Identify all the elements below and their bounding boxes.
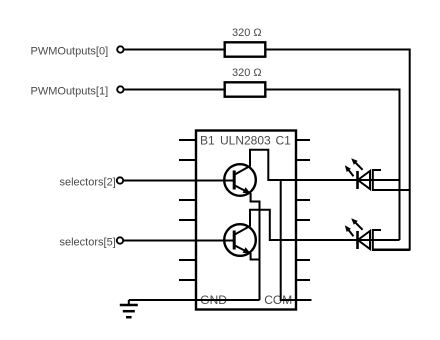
svg-text:320 Ω: 320 Ω xyxy=(232,67,262,79)
terminal selectors[5] xyxy=(117,237,123,243)
pin COM stub xyxy=(296,299,312,301)
wire Q2 emitter to GND rail xyxy=(251,253,260,260)
wire Q1 emitter to GND rail xyxy=(251,193,260,300)
LED D2 light arrow 1 xyxy=(347,228,353,236)
wire R2 right, down to LED2 anode wire xyxy=(265,90,399,241)
svg-text:selectors[5]: selectors[5] xyxy=(60,237,116,249)
LED D1 triangle xyxy=(358,171,370,189)
IC U1 ULN2803 body xyxy=(196,131,296,310)
left pin stubs xyxy=(179,140,196,280)
wire Q2 collector to output pin xyxy=(250,210,296,240)
LED D2 light arrow 2 xyxy=(354,221,363,230)
transistor Q2 emitter diagonal xyxy=(235,246,251,254)
svg-text:320 Ω: 320 Ω xyxy=(232,27,262,39)
transistor Q2 collector diagonal xyxy=(235,226,250,235)
terminal selectors[2] xyxy=(117,177,123,183)
transistor Q2 base bar xyxy=(233,231,236,250)
transistor Q1 circle xyxy=(224,164,256,196)
LED D2 bracket xyxy=(373,230,410,250)
wire selectors[5] to Q2 base xyxy=(124,240,235,242)
LED D1 light arrow 1 xyxy=(347,168,353,176)
transistor Q1 base bar xyxy=(233,171,236,190)
ground xyxy=(128,300,130,306)
LED D1 cathode bar xyxy=(356,171,359,189)
svg-text:B1: B1 xyxy=(200,134,215,148)
wire selectors[2] to Q1 base xyxy=(124,180,235,182)
LED D1 light arrow 2 xyxy=(354,161,363,170)
transistor Q1 emitter diagonal xyxy=(235,186,251,194)
wire R1 right, down to LED2 bracket xyxy=(265,50,409,250)
LED D2 triangle xyxy=(358,231,370,249)
wire PWMOutputs[0] to R1 xyxy=(124,49,225,51)
svg-text:PWMOutputs[0]: PWMOutputs[0] xyxy=(31,46,109,58)
svg-text:ULN2803: ULN2803 xyxy=(220,134,271,148)
transistor Q2 emitter arrowhead xyxy=(243,247,251,254)
svg-text:C1: C1 xyxy=(276,134,292,148)
wire Q1 collector to output pin xyxy=(250,150,296,180)
wire output1 to LED1 xyxy=(296,179,400,181)
svg-text:PWMOutputs[1]: PWMOutputs[1] xyxy=(31,86,109,98)
resistor R1 xyxy=(225,42,266,56)
wire GND pin to ground xyxy=(129,299,260,301)
transistor Q2 circle xyxy=(224,224,256,256)
svg-text:selectors[2]: selectors[2] xyxy=(60,177,116,189)
transistor Q1 collector diagonal xyxy=(235,166,250,175)
terminal PWMOutputs[1] xyxy=(117,86,123,92)
transistor Q1 emitter arrowhead xyxy=(243,187,251,194)
wire output2 to LED2 xyxy=(296,239,400,241)
resistor R2 xyxy=(225,82,266,96)
LED D1 bracket xyxy=(373,170,410,190)
right pin stubs xyxy=(296,140,310,280)
LED D2 cathode bar xyxy=(356,231,359,249)
wire PWMOutputs[1] to R2 xyxy=(124,89,225,91)
wire COM rail xyxy=(281,180,312,300)
terminal PWMOutputs[0] xyxy=(117,46,123,52)
